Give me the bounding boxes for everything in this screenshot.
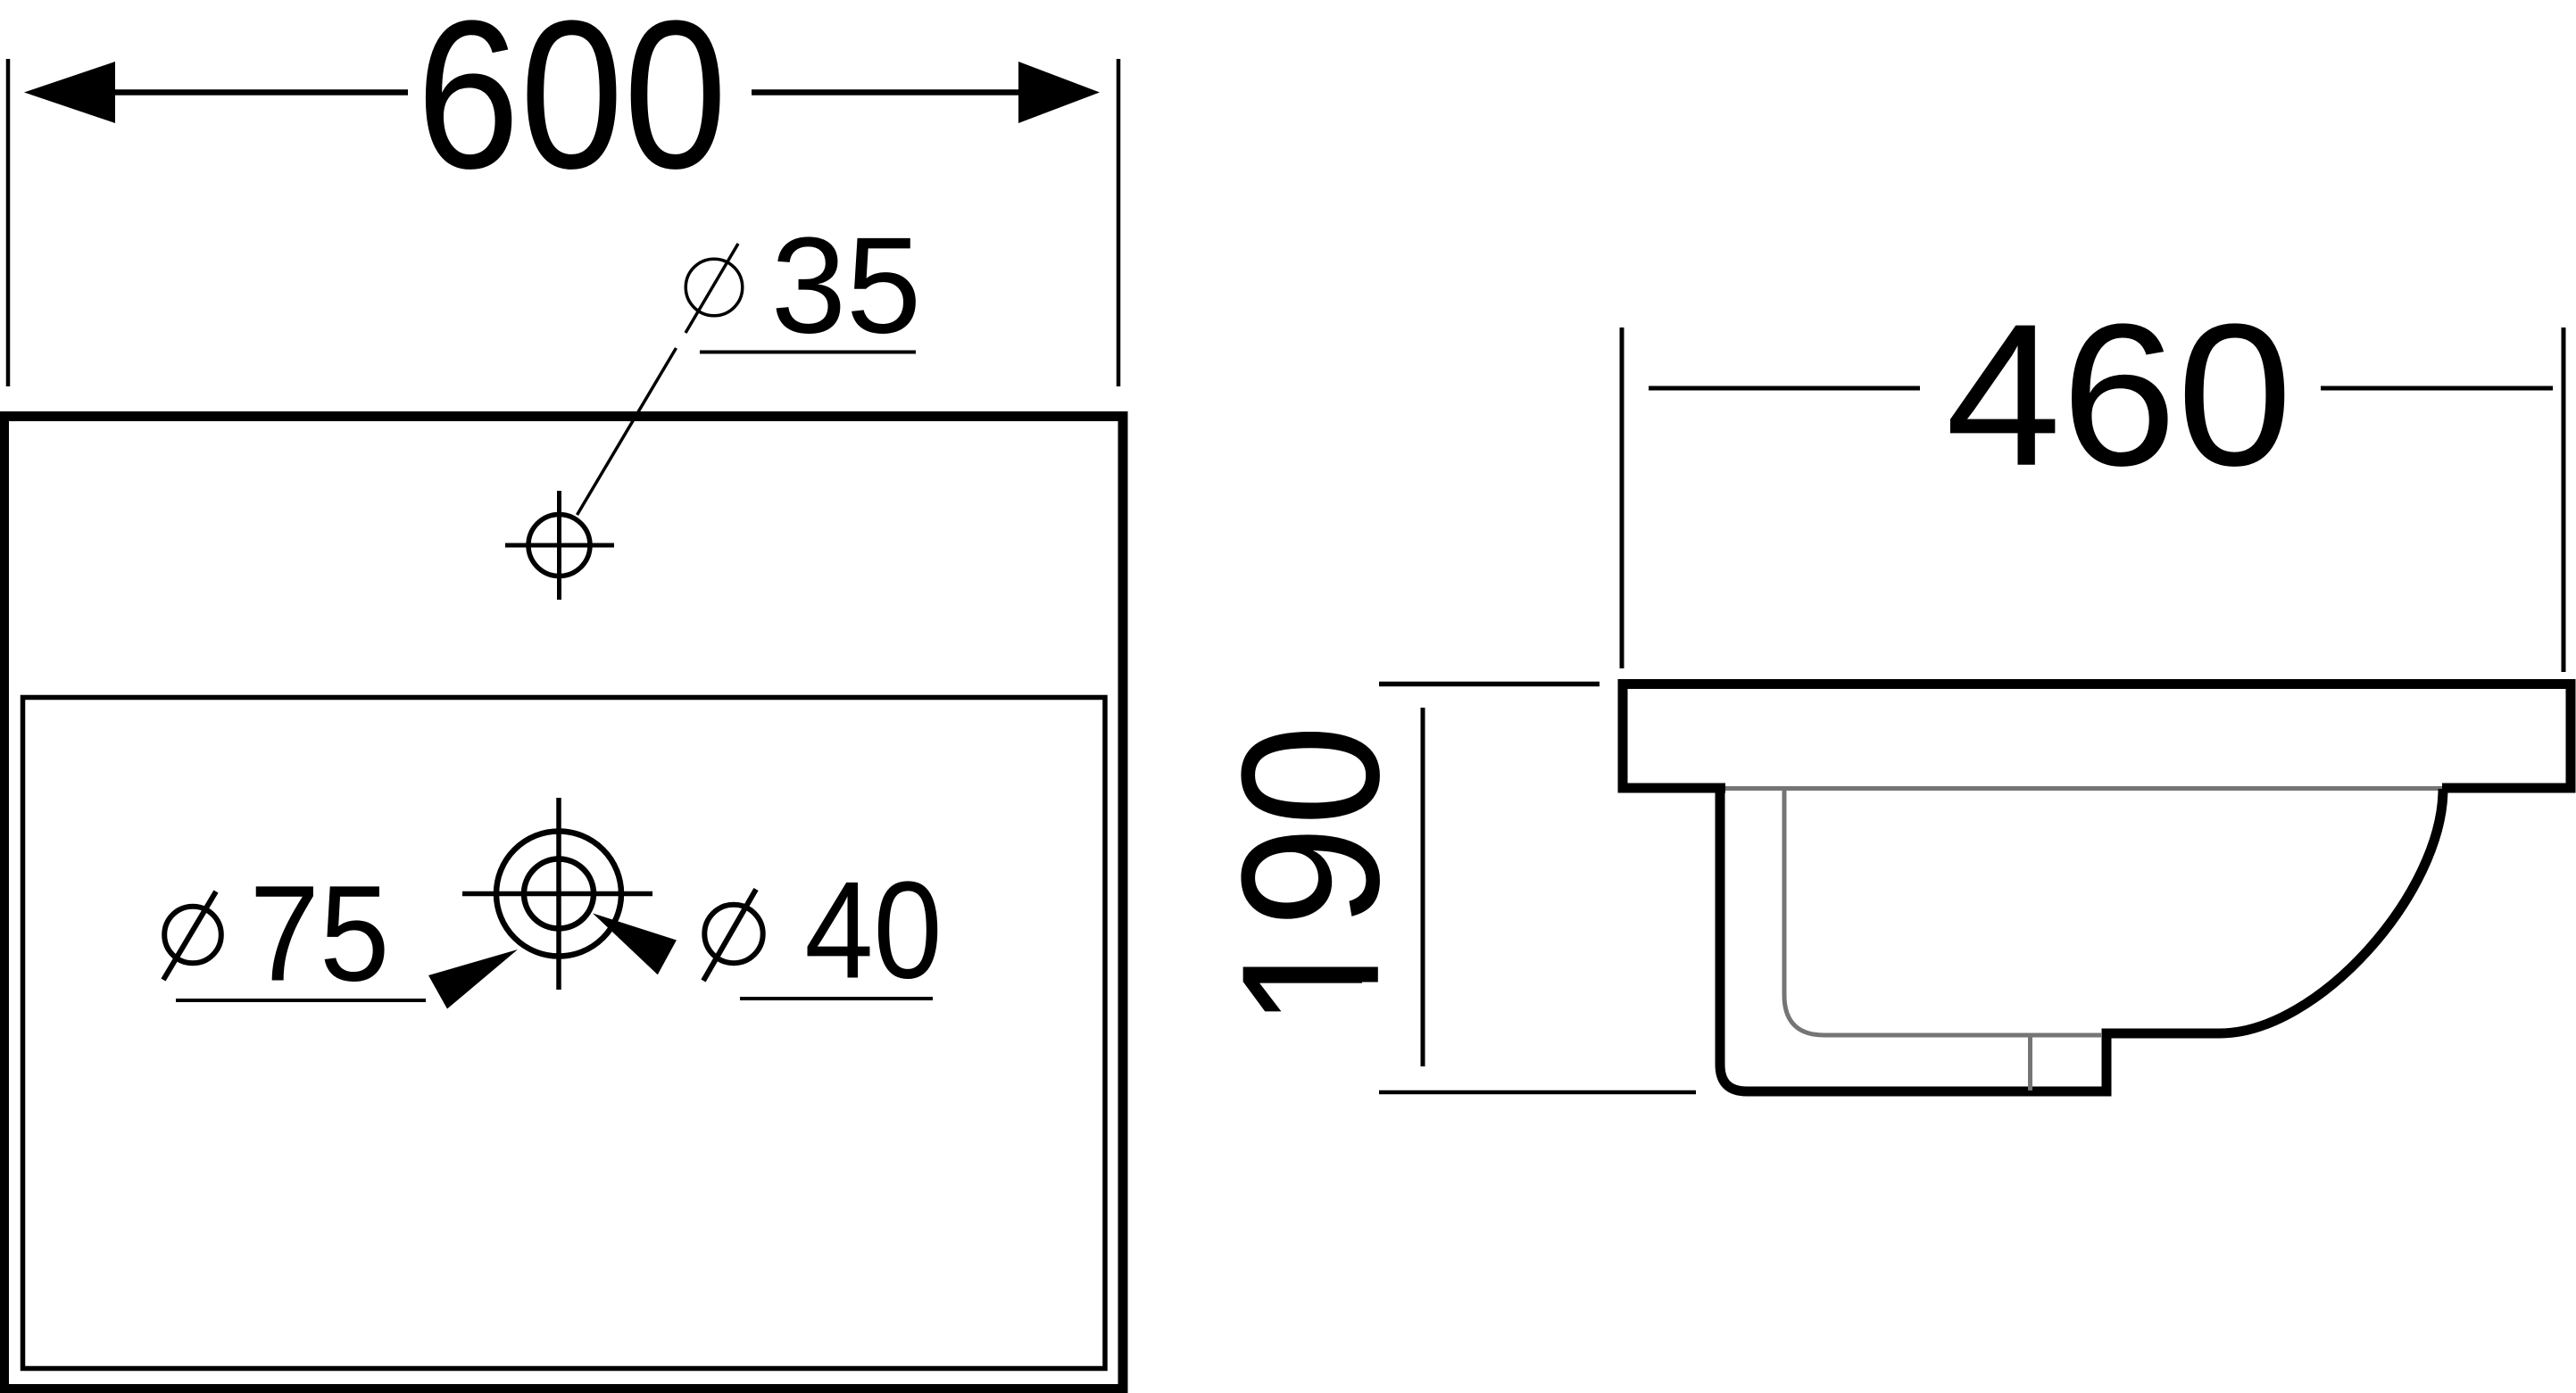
- diameter symbol slash (75): [163, 891, 216, 980]
- side view: hidden basin rim line: [1725, 786, 2442, 791]
- drain crosshair horizontal: [462, 891, 652, 897]
- faucet hole crosshair vertical: [557, 491, 561, 600]
- faucet hole crosshair horizontal: [505, 543, 614, 548]
- wire: dimension 460 left extension line: [1620, 328, 1625, 668]
- wire: dimension 190 top extension line: [1379, 682, 1600, 686]
- svg-text:460: 460: [1946, 283, 2293, 509]
- side view: hidden basin inner wall: [1784, 791, 2101, 1035]
- mask: trim foot serif of digit 1 (lower part): [1362, 983, 1384, 1018]
- diameter symbol circle (75): [164, 907, 221, 964]
- drain crosshair vertical: [556, 798, 561, 990]
- wire: dimension 600 left extension line: [6, 59, 11, 386]
- wire: dimension 600 line left segment: [113, 89, 408, 95]
- underline for diameter 40 label: [740, 997, 933, 1000]
- wire: dimension 460 line right segment: [2321, 386, 2553, 391]
- svg-text:600: 600: [416, 0, 727, 213]
- diameter symbol slash (40): [703, 890, 756, 982]
- diameter symbol circle (35): [686, 259, 743, 316]
- underline for diameter 35 label: [700, 351, 916, 354]
- svg-text:190: 190: [1201, 725, 1420, 1029]
- faucet hole circle: [528, 515, 590, 576]
- drain circle diameter 40: [524, 859, 594, 929]
- top view: washbasin outer rectangle: [4, 417, 1124, 1389]
- underline for diameter 75 label: [176, 999, 426, 1002]
- node: dimension 600 right arrowhead: [1018, 62, 1100, 123]
- leader arrow to overflow circle: [428, 949, 518, 1009]
- leader arrow to drain circle: [593, 913, 677, 974]
- wire: dimension 190 line: [1421, 708, 1425, 1066]
- top view: basin inner rectangle: [23, 698, 1106, 1369]
- svg-text:75: 75: [250, 858, 390, 1010]
- wire: dimension 190 bottom extension line: [1379, 1090, 1696, 1095]
- side view: basin outer profile: [1720, 789, 2443, 1091]
- overflow circle diameter 75: [496, 832, 621, 957]
- mask: trim foot serif of digit 1 (upper part): [1362, 933, 1384, 967]
- wire: dimension 600 line right segment: [752, 89, 1020, 95]
- svg-text:40: 40: [804, 853, 942, 1007]
- wire: dimension 460 line left segment: [1649, 386, 1920, 391]
- svg-text:35: 35: [771, 209, 921, 362]
- side view: slab outline (section): [1623, 684, 2571, 789]
- side view: hidden drain line: [2028, 1035, 2032, 1090]
- wire: dimension 460 right extension line: [2562, 328, 2566, 672]
- wire: dimension 600 right extension line: [1117, 59, 1121, 386]
- node: dimension 600 left arrowhead: [24, 62, 115, 123]
- diameter symbol circle (40): [704, 905, 762, 963]
- leader line to diameter 35 label: [578, 348, 677, 515]
- diameter symbol slash (35): [686, 244, 738, 333]
